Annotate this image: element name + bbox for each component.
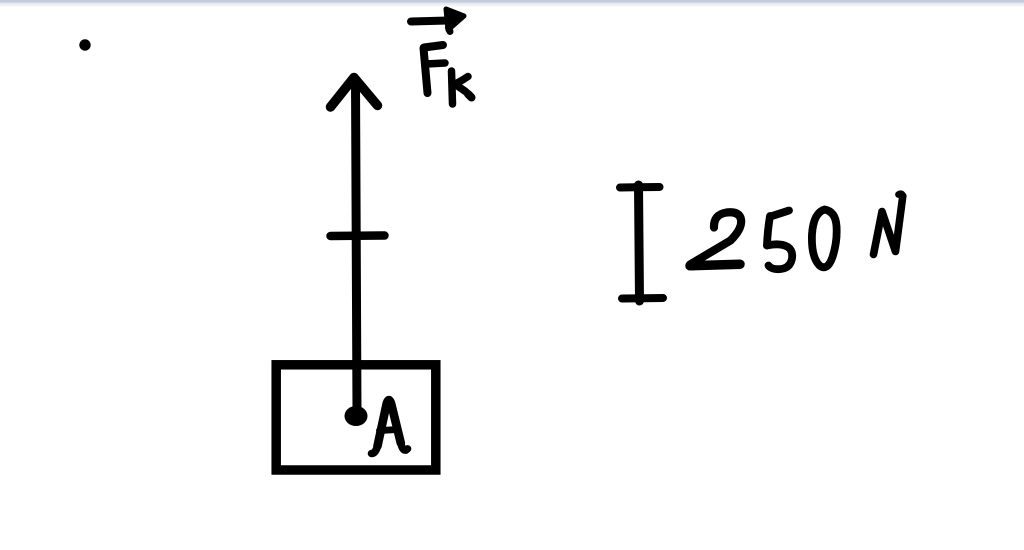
letter A in box xyxy=(372,396,408,453)
top border line xyxy=(0,0,1024,3)
force arrow head xyxy=(331,78,378,108)
scale bar bottom cap xyxy=(622,294,663,303)
dot at arrow tail inside box xyxy=(345,406,368,426)
letter N of 250 N xyxy=(874,194,903,255)
scale bar (I shape) vertical xyxy=(639,185,640,301)
stray dot xyxy=(79,39,90,50)
force arrow shaft xyxy=(356,82,358,414)
scale bar top cap xyxy=(620,183,660,192)
digit 2 of 250 N xyxy=(690,212,741,266)
box (block) xyxy=(276,365,436,470)
digit 5 of 250 N xyxy=(767,211,792,270)
subscript k of F_k label xyxy=(452,71,472,104)
tick mark on arrow xyxy=(331,231,385,240)
vector arrow over F_k label xyxy=(411,9,464,32)
digit 0 of 250 N xyxy=(812,210,837,268)
letter F of F_k label xyxy=(424,45,446,93)
